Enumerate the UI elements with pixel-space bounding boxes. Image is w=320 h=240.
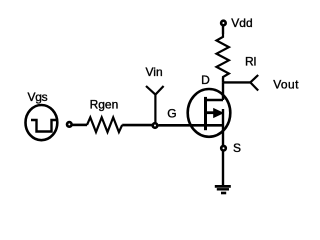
svg-text:S: S xyxy=(233,141,241,155)
wire junction up to Rl xyxy=(222,78,224,82)
wire junction to Vout probe xyxy=(223,81,250,83)
node Vin junction xyxy=(153,123,158,128)
transistor Q1 substrate arrow xyxy=(206,111,215,114)
ground xyxy=(215,186,231,193)
transistor Q1 gate bar xyxy=(204,97,207,130)
wire drain up to junction xyxy=(222,82,224,100)
svg-text:D: D xyxy=(201,73,210,87)
terminal Vdd xyxy=(221,21,226,26)
svg-text:Vout: Vout xyxy=(273,78,299,92)
resistor Rl xyxy=(217,34,229,78)
svg-text:Rgen: Rgen xyxy=(90,97,119,111)
source Vgs xyxy=(26,105,58,140)
wire terminal to Rgen xyxy=(72,124,87,127)
transistor Q1 body xyxy=(188,89,231,137)
terminal S xyxy=(221,146,226,151)
transistor Q1 drain tap xyxy=(206,99,224,101)
terminal node (Vgs output) xyxy=(67,122,72,127)
wire Rl to Vdd terminal xyxy=(222,26,224,35)
svg-text:Vdd: Vdd xyxy=(231,16,252,30)
wire node to gate / bottom tap xyxy=(158,124,223,127)
svg-text:Rl: Rl xyxy=(245,54,256,68)
resistor Rgen xyxy=(87,117,122,132)
svg-text:Vin: Vin xyxy=(146,65,163,79)
transistor Q1 source line xyxy=(222,109,224,146)
wire S to ground xyxy=(222,151,224,186)
pulse symbol xyxy=(31,120,56,132)
probe Vin xyxy=(146,86,164,122)
svg-text:Vgs: Vgs xyxy=(28,90,48,104)
wire Rgen to node xyxy=(122,124,152,127)
probe Vout xyxy=(250,75,258,91)
svg-text:G: G xyxy=(167,107,176,121)
